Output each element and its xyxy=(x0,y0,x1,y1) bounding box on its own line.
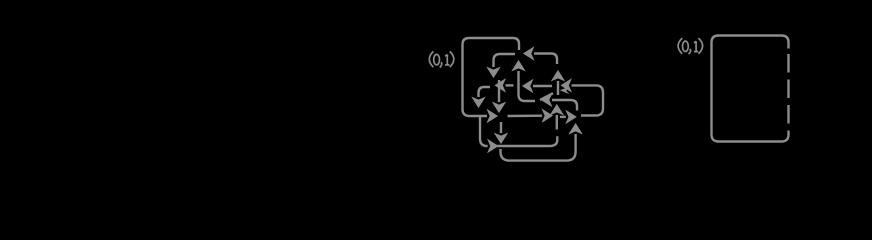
arrowhead into V7 xyxy=(560,116,566,118)
wire V1 to V3 xyxy=(494,54,516,67)
wire V2 to V6 xyxy=(508,114,543,117)
wire V13 up through cluster xyxy=(556,115,558,130)
node label (0,1) right figure xyxy=(678,38,703,54)
wire short arrow into V3 xyxy=(506,84,514,86)
wire arrow into node at x519 y87 xyxy=(533,85,552,87)
wire V7 to V4 small loop xyxy=(572,85,604,115)
wire V5 to V1 xyxy=(534,54,557,65)
wire big loop V1 to V2 xyxy=(463,38,520,116)
wire V7 to V8 xyxy=(552,100,577,111)
wire V3 to V9 xyxy=(479,87,491,97)
loop dashed part of right figure xyxy=(787,54,789,133)
wire V3 to V2 xyxy=(498,80,500,102)
wire V8 to V1 xyxy=(519,71,536,101)
node label (0,1) left quiver xyxy=(429,51,454,67)
wire V10 to V13 xyxy=(497,136,557,146)
loop solid part of right figure xyxy=(712,36,789,142)
wire V9 to V10 xyxy=(480,117,488,146)
wire V2 to V10 xyxy=(500,122,502,133)
wire V10 to V7 bottom loop xyxy=(501,134,576,161)
wire V8 to V4 diagonal xyxy=(540,93,553,100)
wire V4 to V5 xyxy=(557,81,559,95)
